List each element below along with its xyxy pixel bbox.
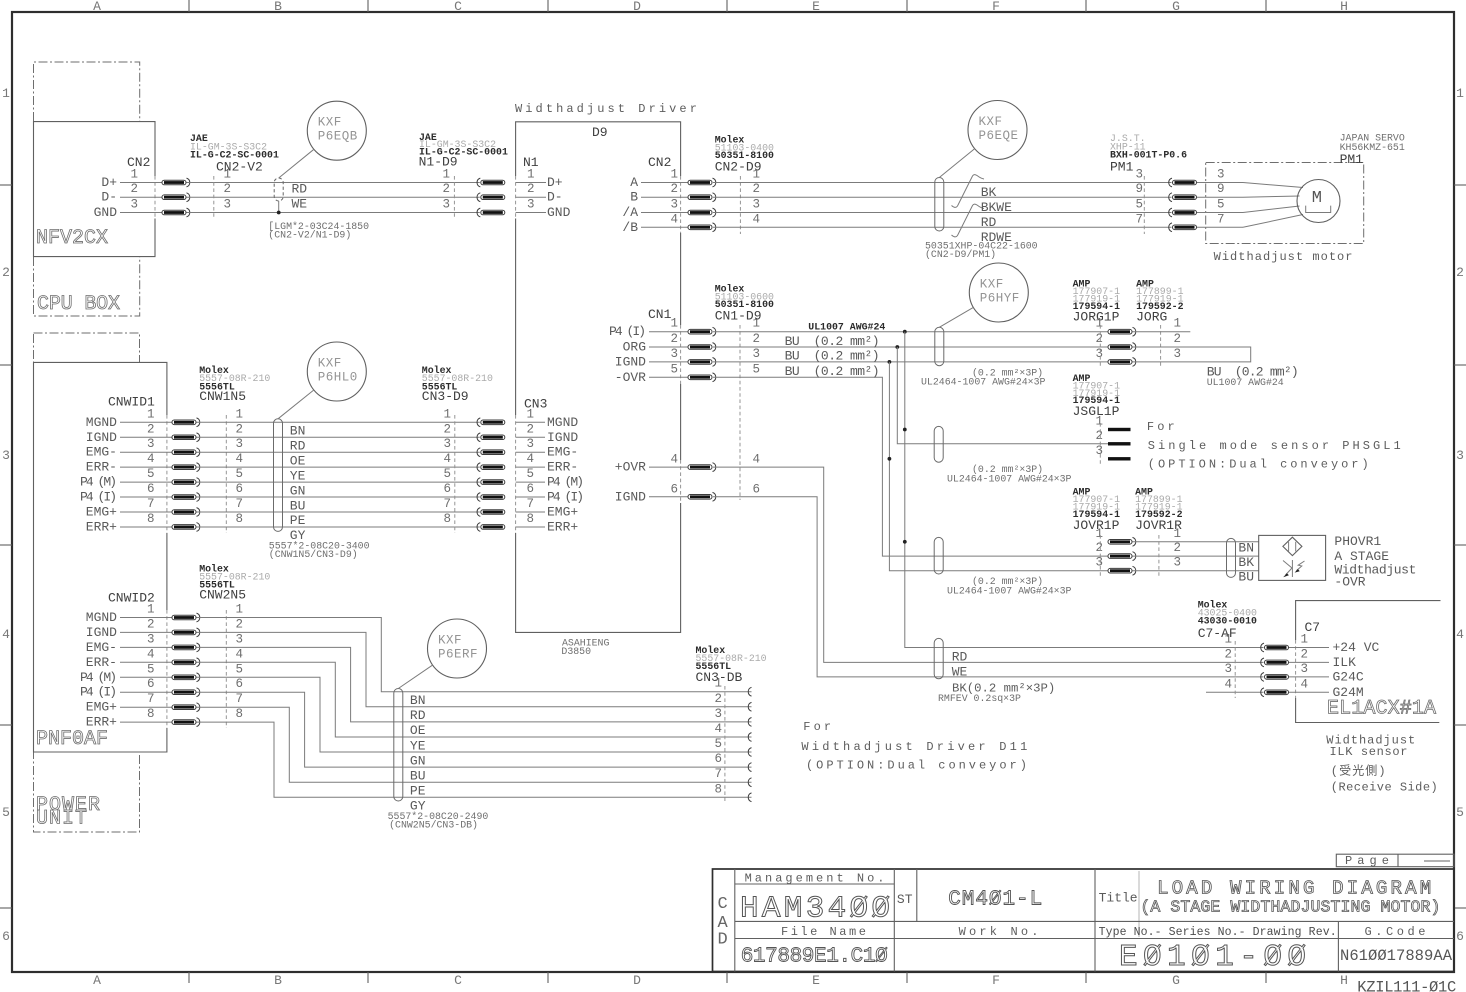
Widthadjust motor dash-dot box — [1206, 163, 1364, 244]
svg-text:1: 1 — [670, 317, 678, 331]
svg-text:4: 4 — [147, 452, 155, 466]
PNF0AF unit box — [34, 362, 167, 752]
svg-text:4: 4 — [670, 212, 678, 226]
svg-text:YE: YE — [290, 468, 306, 483]
svg-text:43030-0010: 43030-0010 — [1198, 616, 1257, 627]
cable capsule C7 bundle — [934, 638, 943, 678]
svg-text:3: 3 — [753, 347, 761, 361]
svg-text:D: D — [633, 973, 641, 988]
svg-text:B: B — [630, 190, 638, 205]
svg-text:BK: BK — [981, 185, 997, 200]
svg-text:CN3-D9: CN3-D9 — [422, 389, 469, 404]
svg-text:G24C: G24C — [1333, 669, 1364, 684]
svg-text:PE: PE — [290, 513, 306, 528]
svg-text:6: 6 — [235, 482, 243, 496]
svg-text:1: 1 — [527, 407, 535, 421]
JORG pins 2-3 jumper — [1133, 347, 1251, 362]
svg-text:OE: OE — [410, 723, 426, 738]
svg-text:MGND: MGND — [547, 415, 578, 430]
svg-text:1: 1 — [1173, 527, 1181, 541]
svg-text:EMG-: EMG- — [86, 445, 117, 460]
svg-text:2: 2 — [1224, 647, 1232, 661]
svg-text:2: 2 — [2, 265, 10, 280]
svg-text:CPU BOX: CPU BOX — [37, 293, 121, 316]
svg-text:KXF: KXF — [979, 115, 1003, 129]
svg-text:HAM34ØØ: HAM34ØØ — [740, 892, 890, 927]
svg-text:E: E — [812, 0, 820, 14]
svg-text:7: 7 — [1217, 212, 1225, 226]
junction at JOVR pin1 — [903, 540, 907, 544]
svg-text:4: 4 — [753, 212, 761, 226]
svg-text:5: 5 — [1456, 805, 1464, 820]
svg-text:RD: RD — [290, 438, 306, 453]
svg-text:BU (0.2 mm²): BU (0.2 mm²) — [785, 364, 880, 379]
svg-text:H: H — [1340, 0, 1348, 14]
svg-text:PE: PE — [410, 784, 426, 799]
svg-text:KXF: KXF — [318, 357, 342, 371]
svg-text:4: 4 — [443, 452, 451, 466]
wire D+ CN2-V2 to N1-D9 — [187, 182, 480, 184]
svg-text:3: 3 — [714, 707, 722, 721]
svg-text:P4 (I): P4 (I) — [80, 685, 117, 700]
svg-text:C: C — [454, 973, 462, 988]
svg-text:7: 7 — [527, 497, 535, 511]
svg-text:2: 2 — [235, 617, 243, 631]
svg-text:E: E — [812, 973, 820, 988]
G24M stub wire — [1206, 691, 1264, 693]
svg-text:6: 6 — [147, 677, 155, 691]
svg-text:1: 1 — [442, 168, 450, 182]
svg-text:3: 3 — [223, 198, 231, 212]
svg-text:(A STAGE WIDTHADJUSTING MOTOR): (A STAGE WIDTHADJUSTING MOTOR) — [1140, 898, 1440, 917]
svg-text:5: 5 — [714, 737, 722, 751]
svg-text:3: 3 — [2, 448, 10, 463]
svg-text:IGND: IGND — [86, 625, 117, 640]
svg-text:(OPTION:Dual conveyor): (OPTION:Dual conveyor) — [1148, 458, 1372, 472]
svg-text:C: C — [454, 0, 462, 14]
wire P4(I) drop to JSGL1/JOVR1/C7-1 — [905, 332, 1264, 648]
cable capsule JSGL bundle — [934, 426, 943, 462]
svg-text:D-: D- — [547, 190, 563, 205]
wire +OVR to C7 pin2 — [713, 467, 1264, 662]
cable boundary dashed marks — [213, 176, 215, 219]
svg-text:5: 5 — [1217, 198, 1225, 212]
svg-text:CN1-D9: CN1-D9 — [715, 309, 762, 324]
svg-text:4: 4 — [1224, 677, 1232, 691]
svg-text:4: 4 — [147, 647, 155, 661]
sensor phototransistor symbol — [1291, 560, 1293, 577]
svg-text:3: 3 — [1456, 448, 1464, 463]
svg-text:5: 5 — [527, 467, 535, 481]
svg-text:RD: RD — [952, 649, 968, 664]
svg-text:KXF: KXF — [318, 116, 342, 130]
svg-text:1: 1 — [147, 603, 155, 617]
svg-text:UL1007 AWG#24: UL1007 AWG#24 — [808, 322, 885, 333]
frame row ticks left/right — [0, 184, 12, 186]
svg-text:2: 2 — [1300, 647, 1308, 661]
svg-text:CN1: CN1 — [648, 307, 672, 322]
svg-text:H: H — [1340, 973, 1348, 988]
svg-text:N61ØØ17889AA: N61ØØ17889AA — [1340, 947, 1453, 965]
svg-text:(OPTION:Dual conveyor): (OPTION:Dual conveyor) — [806, 759, 1030, 773]
balloon KXF P6EQB — [307, 101, 366, 160]
svg-text:1: 1 — [235, 603, 243, 617]
svg-text:1: 1 — [1173, 317, 1181, 331]
svg-text:1: 1 — [527, 168, 535, 182]
svg-text:D9: D9 — [592, 125, 608, 140]
svg-text:For: For — [1147, 420, 1178, 434]
wire P4(I) row — [713, 331, 1108, 333]
svg-text:1: 1 — [1095, 415, 1103, 429]
svg-text:PNF0AF: PNF0AF — [36, 728, 109, 751]
svg-text:WE: WE — [292, 197, 308, 212]
svg-text:1: 1 — [1095, 317, 1103, 331]
cable bundle capsule — [935, 178, 944, 232]
motor circle M PM1 — [1297, 180, 1340, 223]
svg-text:Widthadjust motor: Widthadjust motor — [1214, 250, 1354, 264]
svg-text:3: 3 — [147, 437, 155, 451]
svg-text:7: 7 — [147, 497, 155, 511]
svg-text:7: 7 — [714, 767, 722, 781]
svg-text:1: 1 — [2, 86, 10, 101]
svg-text:2: 2 — [223, 182, 231, 196]
svg-text:EMG-: EMG- — [547, 445, 578, 460]
svg-text:2: 2 — [714, 692, 722, 706]
svg-text:1: 1 — [1224, 633, 1232, 647]
svg-text:Widthadjust Driver D11: Widthadjust Driver D11 — [801, 740, 1030, 754]
svg-text:BN: BN — [290, 424, 306, 439]
motor cable wires A B /A /B — [713, 182, 1172, 184]
sensor diamond symbol — [1283, 537, 1302, 555]
wire IGND(6) to C7 pin3 — [713, 497, 1264, 677]
balloon KXF P6HYF — [969, 263, 1028, 322]
svg-text:1: 1 — [147, 407, 155, 421]
svg-text:ERR-: ERR- — [86, 460, 117, 475]
svg-text:A: A — [93, 0, 101, 14]
svg-text:KXF: KXF — [980, 278, 1004, 292]
svg-text:M: M — [1312, 189, 1322, 208]
svg-text:EMG+: EMG+ — [547, 505, 578, 520]
sensor cable capsule — [1227, 538, 1236, 577]
svg-text:B: B — [274, 973, 282, 988]
svg-text:4: 4 — [753, 453, 761, 467]
svg-text:PM1: PM1 — [1340, 152, 1364, 167]
Page box — [1336, 854, 1454, 867]
svg-text:2: 2 — [1095, 332, 1103, 346]
svg-text:6: 6 — [1456, 929, 1464, 944]
svg-text:IGND: IGND — [615, 354, 646, 369]
svg-text:CNW1N5: CNW1N5 — [199, 389, 246, 404]
svg-text:2: 2 — [1173, 541, 1181, 555]
svg-text:IGND: IGND — [547, 430, 578, 445]
svg-text:BK: BK — [1238, 555, 1254, 570]
svg-text:4: 4 — [235, 647, 243, 661]
svg-text:2: 2 — [147, 617, 155, 631]
svg-text:ERR+: ERR+ — [547, 519, 578, 534]
svg-text:NFV2CX: NFV2CX — [36, 227, 109, 250]
svg-text:EMG+: EMG+ — [86, 505, 117, 520]
svg-text:ILK: ILK — [1333, 655, 1357, 670]
svg-text:UL2464-1007 AWG#24×3P: UL2464-1007 AWG#24×3P — [947, 474, 1072, 485]
svg-text:4: 4 — [527, 452, 535, 466]
svg-text:(Receive Side): (Receive Side) — [1331, 780, 1439, 794]
EL1ACX unit box — [1296, 601, 1441, 640]
svg-text:2: 2 — [1173, 332, 1181, 346]
svg-text:ORG: ORG — [623, 340, 646, 355]
svg-text:(CNW1N5/CN3-D9): (CNW1N5/CN3-D9) — [269, 549, 358, 560]
sensor PHOVR1 box — [1259, 535, 1326, 580]
JORG pin1 stub — [1133, 331, 1191, 333]
driver unit box D9 — [516, 122, 681, 633]
svg-text:1: 1 — [1456, 86, 1464, 101]
svg-text:Management No.: Management No. — [745, 872, 886, 886]
svg-text:4: 4 — [2, 627, 10, 642]
svg-text:BU: BU — [290, 498, 306, 513]
svg-text:4: 4 — [714, 722, 722, 736]
svg-text:P6EQE: P6EQE — [979, 129, 1019, 143]
svg-text:8: 8 — [714, 782, 722, 796]
svg-text:CNW2N5: CNW2N5 — [199, 587, 246, 602]
motor wires into M — [1197, 182, 1243, 184]
svg-text:6: 6 — [235, 677, 243, 691]
cable capsule CNW2N5 bundle — [394, 689, 403, 802]
svg-text:3: 3 — [1217, 168, 1225, 182]
svg-text:7: 7 — [1135, 212, 1143, 226]
svg-text:2: 2 — [753, 182, 761, 196]
svg-text:ERR+: ERR+ — [86, 519, 117, 534]
svg-text:3: 3 — [442, 198, 450, 212]
svg-text:BU (0.2 mm²): BU (0.2 mm²) — [785, 334, 880, 349]
wire IGND row — [713, 361, 1108, 363]
svg-text:3: 3 — [235, 632, 243, 646]
svg-text:6: 6 — [714, 752, 722, 766]
svg-text:CM4Ø1-L: CM4Ø1-L — [948, 889, 1042, 912]
svg-text:+OVR: +OVR — [615, 460, 646, 475]
svg-text:5: 5 — [2, 805, 10, 820]
svg-text:3: 3 — [527, 437, 535, 451]
svg-text:1: 1 — [130, 168, 138, 182]
svg-text:2: 2 — [443, 422, 451, 436]
svg-text:/A: /A — [622, 205, 638, 220]
svg-text:1: 1 — [235, 407, 243, 421]
svg-text:617889E1.C1Ø: 617889E1.C1Ø — [741, 946, 888, 969]
svg-text:MGND: MGND — [86, 610, 117, 625]
svg-text:P6HYF: P6HYF — [980, 292, 1020, 306]
svg-text:ILK sensor: ILK sensor — [1330, 745, 1409, 759]
connector JSGL1P contacts — [1108, 428, 1131, 431]
svg-text:5: 5 — [235, 662, 243, 676]
svg-text:GN: GN — [290, 483, 306, 498]
svg-text:1: 1 — [1095, 527, 1103, 541]
svg-text:6: 6 — [753, 482, 761, 496]
svg-text:3: 3 — [1173, 347, 1181, 361]
svg-text:P4 (I): P4 (I) — [609, 324, 646, 339]
svg-text:P6ERF: P6ERF — [438, 648, 478, 662]
svg-text:P4 (M): P4 (M) — [80, 670, 117, 685]
svg-text:3: 3 — [235, 437, 243, 451]
wire ORG drop to JSGL pin2 — [897, 347, 1108, 444]
svg-text:RD: RD — [292, 182, 308, 197]
svg-text:3: 3 — [1135, 168, 1143, 182]
cable capsule CN1 bundle — [935, 327, 944, 365]
svg-text:RMFEV 0.2sq×3P: RMFEV 0.2sq×3P — [938, 693, 1021, 704]
svg-text:BU (0.2 mm²): BU (0.2 mm²) — [785, 349, 880, 364]
svg-text:MGND: MGND — [86, 415, 117, 430]
svg-text:4: 4 — [1300, 677, 1308, 691]
svg-text:8: 8 — [443, 512, 451, 526]
svg-text:2: 2 — [527, 422, 535, 436]
connector JORG1P contacts — [1108, 329, 1132, 334]
svg-text:GND: GND — [94, 205, 118, 220]
connector C7-AF contacts — [1261, 643, 1264, 652]
connector JOVR1P contacts — [1108, 540, 1132, 545]
svg-text:-OVR: -OVR — [1334, 575, 1365, 590]
svg-text:BKWE: BKWE — [981, 200, 1012, 215]
svg-text:9: 9 — [1217, 182, 1225, 196]
svg-text:IGND: IGND — [615, 489, 646, 504]
cable capsule JOVR bundle — [934, 537, 943, 574]
svg-text:D: D — [718, 931, 728, 950]
frame column ticks top/bottom — [188, 0, 190, 12]
svg-text:For: For — [803, 720, 834, 734]
svg-text:5: 5 — [235, 467, 243, 481]
svg-text:GND: GND — [547, 205, 571, 220]
svg-text:File Name: File Name — [781, 925, 867, 939]
svg-text:PHOVR1: PHOVR1 — [1334, 534, 1381, 549]
svg-text:Widthadjust Driver: Widthadjust Driver — [515, 102, 700, 116]
svg-text:3: 3 — [1095, 347, 1103, 361]
svg-text:7: 7 — [235, 692, 243, 706]
svg-text:D: D — [633, 0, 641, 14]
svg-text:D-: D- — [101, 190, 117, 205]
svg-text:ERR-: ERR- — [547, 460, 578, 475]
svg-text:3: 3 — [1095, 444, 1103, 458]
cable CNW2N5 to CN3-DB staircase wires — [197, 618, 752, 692]
svg-text:BN: BN — [1238, 541, 1254, 556]
svg-text:7: 7 — [443, 497, 451, 511]
twisted pair marker (dashed capsule) — [274, 178, 283, 201]
svg-text:8: 8 — [147, 707, 155, 721]
svg-text:D+: D+ — [547, 175, 563, 190]
svg-text:3: 3 — [670, 198, 678, 212]
shield tail and junction on GND — [278, 201, 280, 213]
svg-text:F: F — [992, 0, 1000, 14]
wire IGND drop to JSGL pin3 / JOVR pin3 — [889, 362, 1108, 571]
svg-text:P6HL0: P6HL0 — [318, 371, 358, 385]
svg-text:5: 5 — [147, 662, 155, 676]
svg-text:8: 8 — [147, 512, 155, 526]
svg-text:(CN2-V2/N1-D9): (CN2-V2/N1-D9) — [268, 230, 351, 241]
svg-text:8: 8 — [235, 707, 243, 721]
svg-text:(CN2-D9/PM1): (CN2-D9/PM1) — [925, 249, 996, 260]
svg-text:3: 3 — [1095, 556, 1103, 570]
svg-text:5: 5 — [670, 362, 678, 376]
CPU BOX dash-dot enclosure — [34, 62, 140, 121]
svg-text:2: 2 — [235, 422, 243, 436]
junction P4(I) branch — [903, 330, 907, 334]
svg-text:OE: OE — [290, 453, 306, 468]
svg-text:8: 8 — [527, 512, 535, 526]
svg-text:2: 2 — [527, 182, 535, 196]
svg-text:C: C — [718, 895, 728, 914]
svg-text:2: 2 — [1095, 541, 1103, 555]
PM1 contacts — [1169, 178, 1172, 187]
svg-text:3: 3 — [147, 632, 155, 646]
svg-text:UL1007 AWG#24: UL1007 AWG#24 — [1207, 377, 1284, 388]
svg-text:G: G — [1172, 973, 1180, 988]
svg-text:5: 5 — [753, 362, 761, 376]
svg-text:G: G — [1172, 0, 1180, 14]
svg-text:BU: BU — [1238, 570, 1254, 585]
svg-text:YE: YE — [410, 738, 426, 753]
svg-text:6: 6 — [670, 482, 678, 496]
svg-text:6: 6 — [2, 929, 10, 944]
svg-text:3: 3 — [443, 437, 451, 451]
svg-text:3: 3 — [1224, 662, 1232, 676]
svg-text:5: 5 — [443, 467, 451, 481]
svg-text:EMG+: EMG+ — [86, 700, 117, 715]
svg-text:2: 2 — [753, 332, 761, 346]
svg-text:Single mode sensor PHSGL1: Single mode sensor PHSGL1 — [1148, 439, 1404, 453]
svg-text:6: 6 — [147, 482, 155, 496]
svg-text:8: 8 — [235, 512, 243, 526]
svg-text:+24 VC: +24 VC — [1333, 640, 1380, 655]
svg-text:N1-D9: N1-D9 — [419, 154, 458, 169]
wire D- — [187, 196, 480, 198]
svg-text:RD: RD — [410, 708, 426, 723]
svg-text:1: 1 — [443, 407, 451, 421]
svg-text:P4 (M): P4 (M) — [80, 475, 117, 490]
svg-text:B: B — [274, 0, 282, 14]
svg-text:UL2464-1007 AWG#24×3P: UL2464-1007 AWG#24×3P — [947, 586, 1072, 597]
svg-text:5: 5 — [1135, 198, 1143, 212]
svg-text:-OVR: -OVR — [615, 370, 646, 385]
svg-text:ERR+: ERR+ — [86, 715, 117, 730]
svg-text:7: 7 — [147, 692, 155, 706]
svg-text:6: 6 — [443, 482, 451, 496]
svg-text:3: 3 — [130, 198, 138, 212]
svg-text:UL2464-1007 AWG#24×3P: UL2464-1007 AWG#24×3P — [921, 377, 1046, 388]
junction ORG branch — [895, 345, 899, 349]
svg-text:2: 2 — [147, 422, 155, 436]
svg-text:ST: ST — [897, 892, 913, 907]
balloon KXF P6HL0 — [307, 342, 366, 401]
svg-text:CN2-V2: CN2-V2 — [216, 160, 263, 175]
svg-text:5: 5 — [147, 467, 155, 481]
svg-text:GN: GN — [410, 753, 426, 768]
svg-text:3: 3 — [1300, 662, 1308, 676]
svg-text:F: F — [992, 973, 1000, 988]
svg-text:BN: BN — [410, 693, 426, 708]
svg-text:2: 2 — [442, 182, 450, 196]
cable capsule CNW1N5 bundle — [274, 419, 283, 532]
svg-text:P4 (M): P4 (M) — [547, 475, 584, 490]
svg-text:7: 7 — [235, 497, 243, 511]
wire GND — [187, 212, 480, 214]
junction IGND branch — [888, 360, 892, 364]
svg-text:3: 3 — [753, 198, 761, 212]
svg-text:4: 4 — [235, 452, 243, 466]
svg-text:P4 (I): P4 (I) — [80, 490, 117, 505]
svg-text:2: 2 — [670, 332, 678, 346]
svg-text:1: 1 — [714, 677, 722, 691]
svg-text:ERR-: ERR- — [86, 655, 117, 670]
balloon KXF P6ERF — [428, 619, 487, 678]
svg-text:2: 2 — [130, 182, 138, 196]
twisted pair slash marks — [952, 175, 985, 208]
svg-text:6: 6 — [527, 482, 535, 496]
svg-text:1: 1 — [670, 168, 678, 182]
